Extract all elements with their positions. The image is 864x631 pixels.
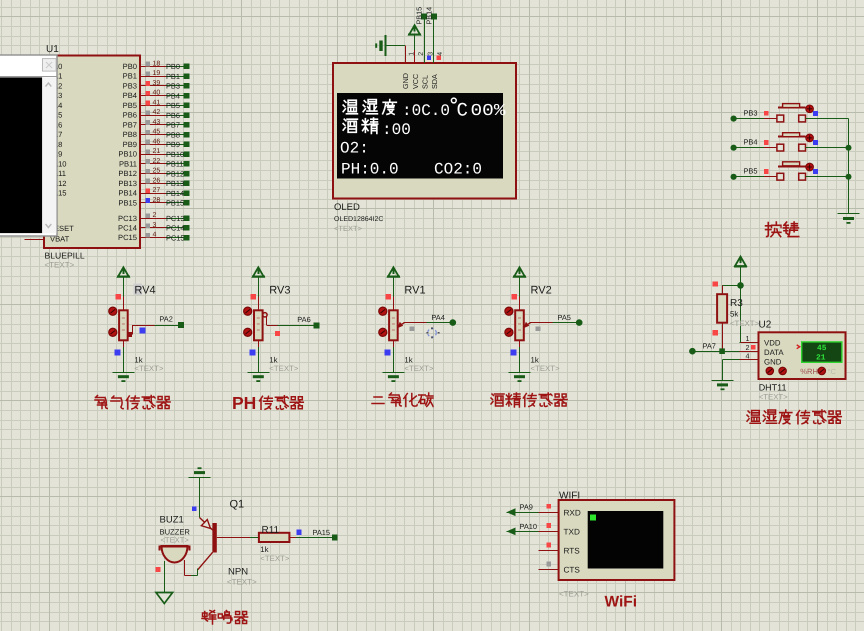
net label PB5 [744, 167, 758, 176]
svg-text:BLUEPILL: BLUEPILL [45, 251, 85, 261]
pin number 41 [153, 99, 161, 106]
potentiometer RV2 [515, 310, 524, 340]
U1 pin name PB7 [123, 120, 137, 129]
RV4 adjust buttons [109, 307, 117, 336]
state indicator (bottom) [249, 349, 255, 355]
svg-text:PA10: PA10 [520, 522, 538, 531]
svg-text:PC14: PC14 [118, 224, 137, 233]
terminal PA9 [507, 508, 516, 516]
terminal PB1 [184, 73, 190, 79]
label BUZ1 [160, 515, 184, 526]
state indicator [386, 294, 392, 300]
wire to bus [806, 176, 849, 178]
svg-text:PC13: PC13 [118, 214, 137, 223]
terminal PB4 [731, 145, 737, 151]
U1 pin name PA4 [49, 101, 63, 110]
DHT11 display [797, 342, 842, 363]
net label PA7 [703, 341, 716, 350]
state indicator (wiper) [275, 331, 280, 336]
svg-text:1k: 1k [404, 356, 412, 365]
value 1k (R11) [260, 545, 268, 554]
DHT11 label %RH [800, 367, 818, 376]
svg-text:PB11: PB11 [166, 160, 184, 169]
DHT11 U2 pin 1 stub [739, 342, 758, 344]
wire PB0 [166, 66, 184, 68]
power (OLED VCC) [408, 25, 421, 35]
ground (OLED) [375, 35, 385, 56]
reference RV3 [269, 285, 290, 297]
wire VBAT [25, 239, 45, 241]
net label PB3 [166, 82, 180, 91]
label DHT11 TEXT [759, 393, 788, 402]
state indicator [192, 506, 197, 511]
svg-text:PA7: PA7 [703, 341, 716, 350]
U1 pin 40 state indicator [146, 91, 151, 96]
U1 pin name PA12 [49, 179, 67, 188]
wire PB6 [166, 115, 184, 117]
net label PA2 [159, 315, 172, 324]
OLED text line3 [340, 140, 369, 158]
WiFi module body [559, 500, 675, 580]
wire R3 top [722, 285, 740, 287]
state indicator (button) [813, 140, 818, 145]
svg-text:PB15: PB15 [118, 198, 137, 207]
pin number 21 [153, 148, 161, 155]
terminal PA15 [332, 535, 338, 541]
U1 pin name PB0 [123, 62, 137, 71]
wire PB5 [734, 176, 777, 178]
reference RV2 [531, 285, 552, 297]
OLED text line2 [343, 118, 411, 139]
svg-text:PB3: PB3 [123, 81, 137, 90]
net label PA6 [297, 315, 310, 324]
OLED pin name SDA [430, 74, 439, 89]
svg-text:R11: R11 [262, 525, 280, 536]
wire PA9 [515, 512, 538, 514]
svg-text:3: 3 [153, 222, 157, 229]
label NPN TEXT [227, 577, 257, 586]
terminal PC14 [184, 225, 190, 231]
svg-text:PA9: PA9 [520, 503, 533, 512]
U1 pin name PB9 [123, 140, 137, 149]
svg-text:PA15: PA15 [313, 528, 331, 537]
svg-text:<TEXT>: <TEXT> [531, 364, 560, 373]
svg-text:5k: 5k [730, 309, 738, 318]
svg-text:PB15: PB15 [415, 7, 424, 25]
pin number 2 [746, 343, 750, 352]
wire PB4 [734, 147, 777, 149]
pin number 19 [153, 70, 161, 77]
U1 pin name VBAT [50, 235, 70, 244]
svg-text:VDD: VDD [764, 339, 781, 348]
power (RV2) [513, 267, 526, 277]
state indicator [512, 294, 518, 300]
wiper (RV1) [397, 322, 453, 328]
terminal PB8 [184, 132, 190, 138]
state indicator pin2 [751, 345, 756, 350]
wire PB4 [166, 95, 184, 97]
svg-text:CO2:0: CO2:0 [434, 161, 482, 179]
wire PB9 [166, 144, 184, 146]
U1 pin name PA1 [49, 72, 63, 81]
pin number 27 [153, 187, 161, 194]
wire PB3 [166, 85, 184, 87]
OLED pin number 3 [428, 52, 435, 56]
svg-text:BUZ1: BUZ1 [160, 515, 184, 526]
OLED pin name GND [401, 73, 410, 89]
svg-text:PB14: PB14 [166, 189, 184, 198]
push button PB4 [777, 133, 813, 151]
svg-text:21: 21 [153, 148, 161, 155]
wire PB7 [166, 124, 184, 126]
svg-text:PC15: PC15 [118, 233, 137, 242]
label NPN [228, 567, 248, 578]
state indicator [296, 530, 301, 535]
wire buzzer left [164, 561, 166, 593]
svg-text:PB9: PB9 [123, 140, 137, 149]
svg-text:1k: 1k [260, 545, 268, 554]
svg-text:PB4: PB4 [123, 91, 137, 100]
wire SCL [424, 20, 426, 64]
svg-text:43: 43 [153, 119, 161, 126]
U1 pin 39 state indicator [146, 81, 151, 86]
net label PC13 [166, 214, 185, 223]
label 按键 [766, 222, 799, 237]
WiFi pin name RXD [564, 508, 581, 517]
wire GND [386, 45, 406, 47]
DHT11 pin name DATA [764, 348, 784, 357]
DHT11 U2 body [759, 332, 846, 379]
wire (RV3 bottom) [258, 340, 260, 372]
wire PB11 [166, 163, 184, 165]
net label PB4 [744, 138, 758, 147]
svg-text:45: 45 [153, 129, 161, 136]
U1 pin 21 state indicator [146, 149, 151, 154]
wire (RV4 top) [123, 277, 125, 311]
DHT11 U2 pin 2 stub [739, 351, 758, 353]
wire GND (DHT11) [723, 359, 740, 380]
wire (RV1 bottom) [393, 340, 395, 372]
U1 pin name PB3 [123, 81, 137, 90]
svg-text:25: 25 [153, 168, 161, 175]
svg-text:PC14: PC14 [166, 224, 185, 233]
terminal PB12 [184, 171, 190, 177]
U1 pin name PA7 [49, 130, 63, 139]
state indicator (wiper) [139, 327, 145, 333]
WiFi screen [588, 511, 664, 569]
push button PB3 [777, 104, 813, 122]
wire PA15 [289, 537, 332, 539]
svg-text::00: :00 [382, 121, 411, 139]
svg-text:PB6: PB6 [123, 111, 137, 120]
U1 pin 45 state indicator [146, 130, 151, 135]
wire to bus [806, 147, 849, 149]
wire R3 upper [722, 285, 724, 294]
OLED module body [333, 63, 516, 199]
U1 pin 28 state indicator [146, 198, 151, 203]
svg-text:O2:: O2: [340, 140, 369, 158]
value 1k [269, 356, 277, 365]
net label PB5 [166, 101, 180, 110]
U1 pin 41 (PB5) stub [140, 105, 166, 107]
potentiometer RV1 [389, 310, 398, 340]
U1 pin name PA8 [49, 140, 63, 149]
pin number 18 [153, 60, 161, 67]
U1 pin name PB8 [123, 130, 137, 139]
net label PB9 [166, 140, 180, 149]
svg-text:PB10: PB10 [118, 150, 137, 159]
U1 pin name PB15 [118, 198, 137, 207]
svg-text:PC13: PC13 [166, 214, 185, 223]
wire PB10 [166, 154, 184, 156]
svg-text:SCL: SCL [420, 75, 429, 89]
svg-text:<TEXT>: <TEXT> [730, 319, 759, 328]
RV1 adjust buttons [379, 307, 387, 336]
potentiometer RV3 [254, 310, 263, 340]
DHT11 pin name GND [764, 358, 782, 367]
junction [846, 174, 852, 180]
net label PB10 [166, 150, 184, 159]
wire PB8 [166, 134, 184, 136]
U1 pin 41 state indicator [146, 101, 151, 106]
U1 pin 25 state indicator [146, 169, 151, 174]
OLED screen [337, 93, 503, 179]
U1 pin name PA15 [49, 189, 67, 198]
terminal PB4 [184, 93, 190, 99]
wire VCC [414, 35, 416, 51]
wire PA10 [515, 531, 538, 533]
U1 pin name PB6 [123, 111, 137, 120]
net label PA10 [520, 522, 538, 531]
wire PA7 [692, 351, 739, 353]
svg-text:28: 28 [153, 197, 161, 204]
terminal PB15 [184, 200, 190, 206]
U1 pin name PB13 [118, 179, 137, 188]
label BUZZER [160, 528, 191, 537]
svg-text:TXD: TXD [564, 528, 580, 537]
pin number 40 [153, 90, 161, 97]
wire (RV2 bottom) [519, 340, 521, 372]
terminal PA10 [507, 528, 516, 536]
terminal PB7 [184, 122, 190, 128]
OLED pin state indicator SCL [427, 55, 431, 59]
pin number 2 [153, 212, 157, 219]
pin number 26 [153, 177, 161, 184]
state indicator PB4 [764, 140, 769, 145]
net label PB8 [166, 130, 180, 139]
terminal PB0 [184, 64, 190, 70]
U1 pin 22 state indicator [146, 159, 151, 164]
net label PB1 [166, 72, 180, 81]
potentiometer RV4 [119, 310, 128, 340]
label TEXT [404, 364, 433, 373]
DHT11 adjust button 2 [818, 367, 825, 374]
state indicator TXD [546, 523, 551, 528]
svg-text:RV4: RV4 [134, 285, 155, 297]
U1 pin 45 (PB8) stub [140, 134, 166, 136]
label R11 TEXT [260, 554, 289, 563]
svg-text:PB3: PB3 [744, 108, 758, 117]
buzzer BUZ1 [159, 546, 191, 563]
terminal PC15 [184, 235, 190, 241]
state indicator [713, 281, 718, 286]
state indicator PB3 [764, 111, 769, 116]
reference Q1 [230, 499, 245, 511]
text highlight [134, 284, 143, 296]
OLED pin name VCC [411, 74, 420, 89]
svg-text:1: 1 [408, 52, 415, 56]
U1 pin 43 (PB7) stub [140, 124, 166, 126]
U1 pin 40 (PB4) stub [140, 95, 166, 97]
svg-text:PC15: PC15 [166, 233, 185, 242]
svg-text:RV3: RV3 [269, 285, 290, 297]
OLED pin state indicator SDA [436, 55, 440, 59]
svg-text:C: C [457, 100, 468, 122]
section label 蜂鸣器 [202, 611, 248, 625]
U1 pin 3 state indicator [146, 223, 151, 228]
U1 pin 4 (PC15) stub [140, 237, 166, 239]
state indicator (wiper) [410, 326, 415, 331]
U1 pin name PB11 [119, 159, 137, 168]
svg-text:PB13: PB13 [166, 179, 184, 188]
WiFi pin RXD stub [538, 512, 558, 514]
svg-text:U1: U1 [46, 44, 59, 55]
U1 pin 2 state indicator [146, 214, 151, 219]
pin number 1 [746, 334, 750, 343]
U1 pin 25 (PB12) stub [140, 173, 166, 175]
net label PB11 [166, 160, 184, 169]
U1 pin name PA2 [49, 81, 63, 90]
svg-text:4: 4 [746, 352, 750, 361]
label WIFI [559, 491, 580, 502]
svg-text:3: 3 [428, 52, 435, 56]
wire PB3 [734, 118, 777, 120]
value 1k [404, 356, 412, 365]
svg-text:<TEXT>: <TEXT> [269, 364, 298, 373]
OLED text line1 [343, 98, 505, 121]
state indicator RXD [546, 504, 551, 509]
net label PB15 [166, 199, 184, 208]
svg-text:R3: R3 [730, 298, 743, 309]
ground (RV3) [247, 373, 269, 383]
U1 pin name PA6 [49, 120, 63, 129]
svg-text:18: 18 [153, 60, 161, 67]
U1 pin name PC14 [118, 224, 137, 233]
svg-text:26: 26 [153, 177, 161, 184]
net label PB3 [744, 108, 758, 117]
U1 pin 43 state indicator [146, 120, 151, 125]
U1 pin 42 (PB6) stub [140, 115, 166, 117]
svg-text:GND: GND [401, 73, 410, 89]
state indicator [713, 330, 718, 335]
state indicator CTS [546, 562, 551, 567]
U1 pin 4 state indicator [146, 233, 151, 238]
RV2 adjust buttons [505, 307, 513, 336]
transistor Q1 [198, 518, 217, 570]
svg-text:PH: PH [232, 393, 256, 413]
svg-text:PB4: PB4 [166, 91, 180, 100]
wire PC15 [166, 237, 184, 239]
wire PB5 [166, 105, 184, 107]
state indicator (bottom) [511, 349, 517, 355]
U1 pin 19 state indicator [146, 71, 151, 76]
net label PA4 [431, 313, 444, 322]
svg-text:DATA: DATA [764, 348, 784, 357]
svg-text:SDA: SDA [430, 74, 439, 89]
U1 pin 28 (PB15) stub [140, 202, 166, 204]
wire PC14 [166, 227, 184, 229]
wire (RV3 top) [258, 277, 260, 311]
svg-text:PB3: PB3 [166, 82, 180, 91]
svg-text:<TEXT>: <TEXT> [334, 224, 363, 233]
wire VDD horiz [739, 342, 740, 344]
terminal PB13 [184, 181, 190, 187]
terminal PB5 [731, 174, 737, 180]
svg-text:PB7: PB7 [166, 121, 180, 130]
pin number 43 [153, 119, 161, 126]
label TEXT [269, 364, 298, 373]
wire PB12 [166, 173, 184, 175]
RV3 adjust buttons [244, 307, 252, 336]
pin number 3 [153, 222, 157, 229]
svg-text:OLED: OLED [334, 202, 360, 213]
U1 pin name PB1 [123, 72, 137, 81]
DHT11 U2 pin 4 stub [739, 359, 758, 361]
svg-text:PB14: PB14 [118, 189, 137, 198]
net label PB14 [166, 189, 184, 198]
pin number 4 [153, 232, 157, 239]
svg-text:RXD: RXD [564, 508, 581, 517]
reference R11 [262, 525, 280, 536]
svg-text:PB5: PB5 [123, 101, 137, 110]
terminal (down arrow) [156, 593, 173, 604]
ground (buzzer, flipped) [189, 467, 211, 477]
wire PB14 [166, 193, 184, 195]
U1 pin 18 state indicator [146, 62, 151, 67]
svg-text:PB14: PB14 [424, 7, 433, 25]
DHT11 adjust buttons [766, 367, 786, 374]
power (RV1) [387, 267, 400, 277]
U1 pin 22 (PB11) stub [140, 163, 166, 165]
U1 pin name PA11 [49, 169, 66, 178]
label U1 [46, 44, 59, 55]
section label 温湿度传感器 [747, 410, 841, 424]
U1 pin name PB14 [118, 189, 137, 198]
U1 pin 21 (PB10) stub [140, 154, 166, 156]
svg-text:PB12: PB12 [118, 169, 137, 178]
WiFi pin RTS stub [538, 550, 558, 552]
terminal PB6 [184, 112, 190, 118]
wire PB15 [166, 202, 184, 204]
svg-text:GND: GND [764, 358, 782, 367]
svg-text:PB11: PB11 [119, 159, 137, 168]
U1 pin 46 state indicator [146, 140, 151, 145]
terminal PA2 [178, 322, 184, 328]
wire R3 bottom [722, 323, 724, 352]
label TEXT [134, 364, 163, 373]
svg-text:PB1: PB1 [166, 72, 180, 81]
pin number 46 [153, 138, 161, 145]
svg-text:<TEXT>: <TEXT> [260, 554, 289, 563]
OLED pin number 2 [418, 52, 425, 56]
pin number 28 [153, 197, 161, 204]
svg-text:PB9: PB9 [166, 140, 180, 149]
svg-text:<TEXT>: <TEXT> [134, 364, 163, 373]
WiFi pin name RTS [564, 547, 581, 556]
svg-text:RTS: RTS [564, 547, 581, 556]
power (RV3) [252, 267, 265, 277]
label WiFi [605, 594, 638, 611]
